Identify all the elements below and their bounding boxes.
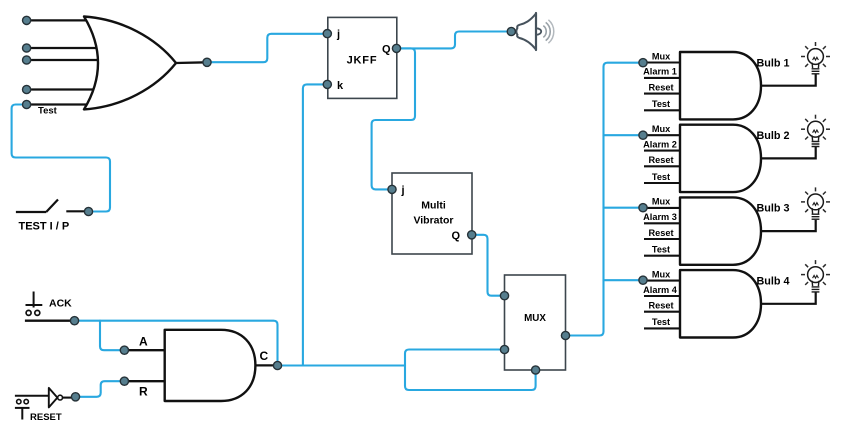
node U2 pin Q: [468, 231, 476, 239]
bulb B2: [801, 115, 830, 147]
node U3 input 1: [500, 292, 508, 300]
label TEST I / P: [19, 221, 70, 233]
node OR1 input 3: [23, 56, 31, 64]
pushbutton RESET: [15, 396, 49, 420]
bulb B1: [801, 42, 830, 74]
svg-text:Reset: Reset: [648, 155, 673, 165]
svg-text:Q: Q: [451, 230, 460, 242]
label Test: [38, 106, 58, 117]
node U2 pin j: [388, 185, 396, 193]
node R: [120, 377, 128, 385]
svg-text:Mux: Mux: [652, 124, 671, 134]
node ACK terminal: [70, 317, 78, 325]
node OR1 input 1: [23, 16, 31, 24]
svg-text:RESET: RESET: [30, 412, 62, 423]
pin label Test of G1: [652, 99, 670, 109]
and-gate G5 input lines: [124, 350, 166, 381]
wire U2 Q to U3 input 1: [472, 235, 505, 296]
flip-flop U1 JKFF: [328, 17, 397, 98]
node A: [120, 346, 128, 354]
label A: [139, 335, 148, 349]
wire ACK to node C: [75, 321, 278, 366]
svg-text:Q: Q: [382, 44, 391, 56]
svg-text:R: R: [139, 385, 148, 399]
svg-text:C: C: [260, 349, 269, 363]
node S1 terminal: [84, 207, 92, 215]
svg-text:Reset: Reset: [648, 228, 673, 238]
pin label Mux of G1: [652, 51, 671, 61]
svg-text:j: j: [336, 29, 340, 41]
svg-text:TEST I / P: TEST I / P: [19, 221, 70, 233]
and-gate G2 input lines: [644, 135, 681, 183]
node U1 pin Q: [392, 44, 400, 52]
pushbutton ACK: [25, 292, 75, 321]
multivibrator U2: [392, 173, 472, 254]
node OR1 output: [203, 58, 211, 66]
pin label Alarm 2 of G2: [643, 139, 677, 149]
svg-text:ACK: ACK: [49, 298, 72, 310]
bulb B4: [801, 260, 830, 292]
svg-text:Vibrator: Vibrator: [413, 215, 453, 227]
svg-text:Alarm 1: Alarm 1: [643, 67, 677, 77]
node OR1 input 2: [23, 44, 31, 52]
pin label Mux of G2: [652, 124, 671, 134]
and-gate G1: [680, 52, 816, 119]
node G4 Mux input: [639, 276, 647, 284]
svg-text:Alarm 3: Alarm 3: [643, 212, 677, 222]
svg-text:Bulb 4: Bulb 4: [757, 275, 790, 287]
node C: [273, 361, 281, 369]
wire bus to U3 input 2: [405, 350, 505, 366]
wire U1 Q to speaker LS1: [397, 32, 512, 49]
pin label Reset of G4: [648, 301, 673, 311]
pin label Test of G3: [652, 245, 670, 255]
svg-text:Bulb 1: Bulb 1: [757, 57, 790, 69]
svg-text:JKFF: JKFF: [347, 55, 378, 67]
svg-text:Test: Test: [652, 172, 670, 182]
svg-text:k: k: [337, 80, 344, 92]
svg-text:Alarm 2: Alarm 2: [643, 139, 677, 149]
wire U3 output distribution bus: [566, 63, 644, 336]
svg-text:Reset: Reset: [648, 82, 673, 92]
inverter N1: [49, 388, 72, 408]
node U3 output: [561, 331, 569, 339]
wire bus to U3 bottom input: [405, 366, 536, 391]
wire bus branch to G2 Mux input: [604, 134, 644, 136]
pin label Reset of G2: [648, 155, 673, 165]
svg-text:Mux: Mux: [652, 197, 671, 207]
or-gate OR1: [84, 17, 207, 110]
bulb B3: [801, 187, 830, 219]
svg-text:Test: Test: [652, 317, 670, 327]
wire bus branch to G3 Mux input: [604, 207, 644, 209]
and-gate G2: [680, 125, 816, 192]
or-gate OR1 input lines: [27, 20, 108, 104]
pin label Reset of G1: [648, 82, 673, 92]
node OR1 input 4: [23, 85, 31, 93]
svg-text:Bulb 2: Bulb 2: [757, 130, 790, 142]
svg-text:Test: Test: [38, 106, 58, 117]
label Bulb 1: [757, 57, 790, 69]
label C: [260, 349, 269, 363]
pin label Alarm 4 of G4: [643, 285, 678, 295]
mux U3: [505, 275, 566, 370]
node U3 bottom input: [532, 366, 540, 374]
node speaker input: [507, 27, 515, 35]
label R: [139, 385, 148, 399]
svg-text:Bulb 3: Bulb 3: [757, 203, 790, 215]
pin label Alarm 3 of G3: [643, 212, 677, 222]
and-gate G1 input lines: [644, 63, 681, 111]
pin label Test of G4: [652, 317, 670, 327]
pin label Mux of G4: [652, 269, 671, 279]
and-gate G3 input lines: [644, 208, 681, 256]
wire node C to bus junction: [278, 364, 406, 366]
and-gate G4 input lines: [644, 281, 681, 329]
pin label Reset of G3: [648, 228, 673, 238]
node U1 pin j: [323, 29, 331, 37]
node OR1 input Test: [23, 100, 31, 108]
and-gate G3: [680, 197, 816, 264]
pin label Test of G2: [652, 172, 670, 182]
pin label Mux of G3: [652, 197, 671, 207]
wire RESET to node R: [76, 381, 125, 397]
node G3 Mux input: [639, 204, 647, 212]
svg-text:Reset: Reset: [648, 301, 673, 311]
svg-text:j: j: [401, 185, 405, 197]
wire bus branch to G4 Mux input: [604, 279, 644, 281]
node U3 input 2: [500, 345, 508, 353]
svg-text:Mux: Mux: [652, 51, 671, 61]
svg-text:Alarm 4: Alarm 4: [643, 285, 678, 295]
node RESET terminal: [71, 393, 79, 401]
svg-text:Multi: Multi: [421, 200, 446, 212]
wire OR1 output to U1 pin j: [207, 34, 327, 62]
label Bulb 4: [757, 275, 790, 287]
svg-text:MUX: MUX: [524, 313, 546, 324]
switch S1 TEST I/P: [16, 200, 85, 213]
wire ACK branch to node A: [100, 321, 124, 351]
label Bulb 2: [757, 130, 790, 142]
node G2 Mux input: [639, 131, 647, 139]
pin label Alarm 1 of G1: [643, 67, 677, 77]
wire Test input to switch S1: [12, 105, 110, 212]
wire U1 pin k to node C: [303, 84, 327, 365]
label RESET: [30, 412, 62, 423]
and-gate G4: [680, 270, 816, 337]
label ACK: [49, 298, 72, 310]
node G1 Mux input: [639, 59, 647, 67]
svg-text:Mux: Mux: [652, 269, 671, 279]
wire U1 Q to U2 pin j: [372, 48, 415, 189]
svg-text:Test: Test: [652, 99, 670, 109]
svg-text:A: A: [139, 335, 148, 349]
speaker LS1: [516, 13, 553, 50]
node U1 pin k: [323, 80, 331, 88]
label Bulb 3: [757, 203, 790, 215]
svg-text:Test: Test: [652, 245, 670, 255]
and-gate G5: [165, 330, 274, 401]
